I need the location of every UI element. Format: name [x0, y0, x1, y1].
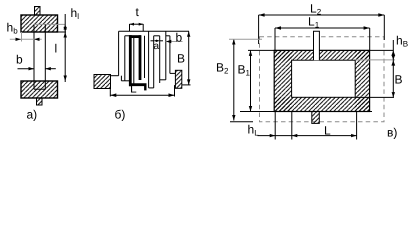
arrow up tip 32b	[64, 32, 67, 38]
hB arrow up tip 50.4	[391, 50, 395, 55]
L arrow left	[110, 93, 116, 97]
film frame bottom band	[274, 97, 369, 111]
L ext right	[356, 112, 358, 140]
t arrow left	[130, 23, 135, 26]
B v arrow up tip 60.3	[391, 60, 395, 65]
B v arrow down tip 97.4	[392, 92, 395, 97]
window top gray ext	[355, 59, 395, 61]
bottom tab	[312, 112, 320, 124]
B dim line	[188, 31, 190, 85]
B2 gray ext	[229, 38, 262, 40]
slot top connect 2	[166, 35, 170, 37]
frame top ext line	[248, 49, 394, 51]
dim h_b right arrow	[34, 38, 40, 41]
meander vertical 3	[133, 38, 135, 84]
t ext line right	[142, 24, 144, 31]
L2 arrow left	[259, 13, 265, 17]
hB arrow down tip 59.9	[391, 55, 395, 60]
film frame top band	[274, 50, 369, 60]
L arrow right end	[351, 134, 357, 137]
meander outer left vertical	[118, 31, 120, 75]
a arrow right	[156, 40, 159, 42]
wire meander to pad2	[170, 72, 176, 74]
L1 arrow left	[275, 26, 281, 30]
bottom U right	[160, 79, 166, 81]
svg-text:б): б)	[115, 108, 126, 122]
window bottom ext	[355, 96, 394, 98]
L1 ext left gray	[274, 28, 276, 50]
L2 dim line	[259, 14, 385, 16]
first strip bottom turn	[121, 80, 124, 82]
dim b line right	[45, 68, 56, 70]
meander vertical 5	[153, 36, 155, 88]
top slot outline	[314, 31, 320, 60]
svg-text:B: B	[177, 52, 185, 66]
b gray ext line	[166, 41, 183, 43]
ext line plate left edge	[21, 32, 23, 42]
a dim line right	[160, 40, 163, 42]
meander vertical 7	[165, 31, 167, 80]
B2 dim line	[233, 39, 235, 121]
t ext line left	[129, 24, 131, 31]
bottom plate a	[21, 81, 58, 98]
svg-text:а): а)	[27, 108, 38, 122]
svg-text:l: l	[55, 42, 58, 56]
dim b arrow left	[29, 67, 35, 70]
L ext right	[174, 85, 176, 96]
dim h_b gray line	[10, 38, 42, 40]
hB dim line	[392, 40, 394, 97]
meander top contour	[119, 30, 189, 32]
L2 arrow right	[378, 13, 384, 17]
svg-text:L: L	[324, 124, 331, 138]
a arrow left	[154, 40, 157, 42]
frame bottom ext line	[240, 111, 372, 113]
dim l vertical line	[64, 14, 66, 82]
window white	[292, 60, 356, 97]
hL ext right / L ext left	[291, 112, 293, 140]
meander vertical 3b	[144, 36, 146, 78]
inner bottom connect	[125, 80, 129, 82]
wire pad1 to meander	[111, 75, 119, 77]
film frame right column	[355, 50, 369, 111]
L1 ext right	[369, 28, 371, 50]
arrow down tip 81	[64, 76, 67, 82]
top tab a	[35, 7, 41, 16]
b arrow	[166, 40, 172, 43]
B arrow up	[187, 31, 190, 37]
B1 arrow down	[249, 106, 252, 112]
L dim line	[110, 94, 174, 96]
B2 arrow up	[232, 39, 235, 45]
meander bottom U	[149, 87, 154, 89]
svg-text:B: B	[395, 73, 403, 87]
thick meander top arm	[129, 35, 141, 38]
top slot white	[314, 31, 320, 60]
thick meander lead down	[144, 84, 146, 90]
meander vertical 4	[148, 31, 150, 88]
top plate a	[21, 15, 58, 32]
meander vertical 6	[159, 36, 161, 83]
pad 1 (left contact)	[94, 75, 111, 89]
L1 arrow right	[364, 26, 370, 30]
B arrow down	[187, 79, 190, 85]
gap line right	[44, 25, 46, 90]
B2 bottom ext	[230, 121, 253, 123]
arrow down tip 32	[64, 27, 67, 32]
svg-text:L: L	[130, 82, 137, 96]
hL arrow left-pointing	[292, 134, 298, 137]
L ext left	[109, 88, 111, 97]
B1 arrow up	[249, 50, 252, 56]
film frame left column	[274, 50, 291, 111]
substrate dashed outline	[260, 37, 385, 122]
thick meander bottom arm	[129, 83, 147, 86]
meander vertical 8	[169, 36, 171, 74]
pad 2 (right contact)	[175, 70, 181, 88]
slot top connect	[154, 35, 160, 37]
inner top connect	[125, 35, 129, 37]
t dim line	[130, 23, 144, 25]
thick meander left leg	[129, 35, 132, 86]
svg-text:a: a	[154, 41, 160, 52]
hL arrow right-pointing	[270, 134, 276, 137]
L1 dim line	[275, 27, 370, 29]
t arrow right	[139, 23, 144, 26]
L arrow right	[169, 93, 175, 97]
first strip inner edge	[120, 76, 122, 81]
svg-text:в): в)	[387, 126, 397, 140]
arrow up tip 24.4	[64, 24, 67, 29]
thick meander right leg	[139, 35, 142, 80]
a dim line left	[151, 40, 154, 42]
groove bottom line	[34, 88, 45, 90]
bottom tab a	[37, 98, 43, 105]
frame outer outline	[274, 50, 369, 111]
hL ext left	[274, 112, 276, 140]
plate bottom ext line	[58, 31, 67, 33]
groove top gray line	[34, 23, 66, 25]
dim b line left	[18, 68, 35, 70]
B2 arrow down	[232, 115, 235, 121]
dim b arrow right	[45, 67, 51, 70]
svg-text:b: b	[16, 53, 23, 67]
gap line left	[33, 25, 35, 90]
L2 ext right	[383, 15, 385, 40]
svg-text:b: b	[176, 31, 183, 45]
bottom dim line	[258, 135, 357, 137]
B1 dim line	[250, 50, 252, 111]
L2 ext left	[258, 15, 260, 44]
meander inner vertical 2	[124, 36, 126, 81]
dim h_b left arrow	[16, 38, 22, 41]
B bottom ext line	[182, 84, 191, 86]
